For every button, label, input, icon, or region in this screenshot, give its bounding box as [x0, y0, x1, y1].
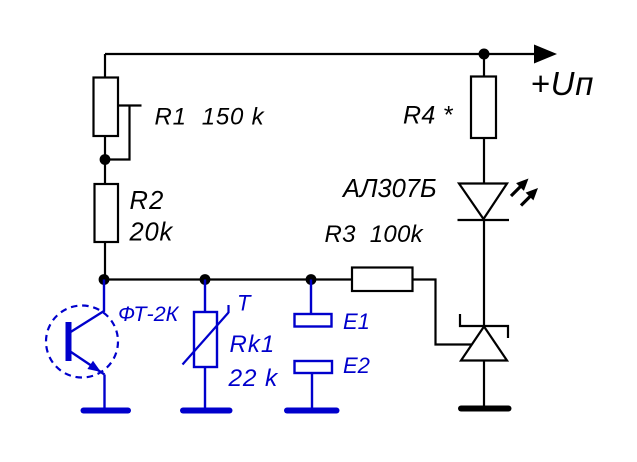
- svg-text:+Uп: +Uп: [531, 65, 595, 102]
- wire : horizontal bus: [104, 278, 352, 280]
- node +Un arrow: [534, 45, 557, 64]
- junction dot on rail: [479, 49, 490, 60]
- wire : R4 to LED: [483, 138, 485, 184]
- svg-text:E1: E1: [343, 309, 370, 334]
- svg-text:20k: 20k: [129, 219, 174, 247]
- svg-text:R4 *: R4 *: [403, 102, 454, 130]
- svg-text:ФТ-2К: ФТ-2К: [118, 302, 180, 326]
- svg-text:22 k: 22 k: [228, 365, 279, 392]
- svg-text:E2: E2: [343, 353, 370, 378]
- wire : thermistor to ground: [204, 367, 206, 408]
- resistor R2 body: [95, 184, 119, 242]
- resistor R3 body: [352, 268, 413, 292]
- junction dot R1/R2: [100, 154, 111, 165]
- capacitor E1 : wire from bus: [310, 280, 312, 315]
- wire : thyristor to ground: [483, 361, 485, 408]
- thermistor Rk1 : wire from bus: [204, 280, 206, 313]
- wire : rail down to R4: [483, 54, 485, 77]
- thyristor cathode bar with stubs: [460, 314, 508, 338]
- wire : emitter to ground: [103, 375, 105, 409]
- phototransistor base bar: [66, 322, 72, 361]
- wire : top supply rail: [105, 53, 537, 55]
- ground (black): [461, 406, 509, 412]
- junction dot bus B: [200, 274, 211, 285]
- thermistor diagonal stroke: [183, 313, 229, 365]
- phototransistor dashed circle: [46, 306, 118, 378]
- LED light arrow 1: [511, 179, 529, 197]
- wire : R1 bottom to R2 top: [104, 136, 106, 184]
- wire : rail down to R1: [104, 54, 106, 78]
- svg-text:R3 100k: R3 100k: [325, 221, 425, 248]
- ground (blue, thermistor): [183, 408, 230, 414]
- phototransistor FT-2K : collector wire from bus: [69, 280, 104, 334]
- phototransistor emitter with arrow: [71, 352, 105, 375]
- ground (blue, phototransistor): [84, 408, 129, 414]
- wire : E2 to ground: [311, 373, 313, 408]
- svg-text:R1 150 k: R1 150 k: [155, 104, 266, 131]
- thermistor body: [194, 312, 217, 367]
- svg-text:Rk1: Rk1: [230, 331, 276, 358]
- wire : LED to thyristor: [483, 220, 485, 327]
- resistor R4 body: [471, 77, 496, 139]
- resistor R1 (trimmer) body: [94, 78, 119, 137]
- thermistor diagonal tick: [227, 305, 229, 313]
- svg-text:АЛ307Б: АЛ307Б: [341, 175, 437, 203]
- wire : R2 bottom to bus: [104, 242, 106, 280]
- LED AL307B triangle: [459, 184, 507, 220]
- junction dot bus A: [99, 274, 110, 285]
- capacitor E2 body: [295, 361, 333, 373]
- wire : R3 to thyristor gate: [413, 280, 472, 345]
- capacitor E1 body: [295, 314, 332, 327]
- ground (blue, capacitors): [287, 408, 337, 414]
- svg-text:R2: R2: [130, 187, 165, 215]
- thyristor triangle: [461, 327, 507, 361]
- junction dot bus C: [306, 274, 317, 285]
- LED light arrow 2: [521, 188, 538, 206]
- LED AL307B cathode bar: [458, 219, 510, 221]
- resistor R1 wiper tap: [118, 104, 142, 106]
- svg-text:T: T: [237, 291, 252, 316]
